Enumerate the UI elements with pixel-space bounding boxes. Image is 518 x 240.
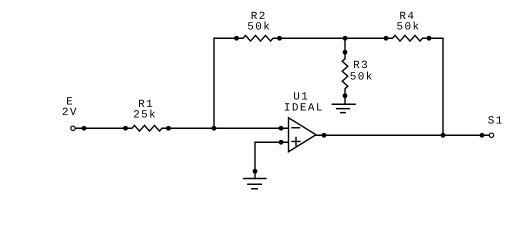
svg-text:2V: 2V (62, 107, 78, 119)
svg-text:IDEAL: IDEAL (284, 103, 324, 115)
svg-text:50k: 50k (350, 72, 374, 84)
svg-text:S1: S1 (488, 116, 504, 128)
svg-text:50k: 50k (396, 21, 420, 33)
svg-text:R3: R3 (353, 60, 369, 72)
svg-text:25k: 25k (133, 110, 157, 122)
svg-text:50k: 50k (247, 21, 271, 33)
